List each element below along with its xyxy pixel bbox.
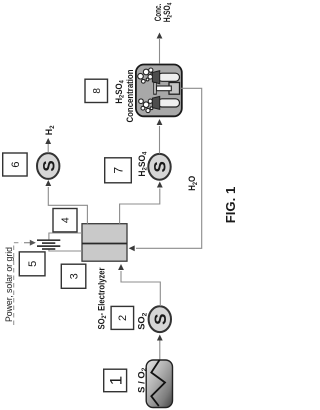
- box 5: [19, 252, 45, 276]
- compressor S1: [149, 306, 171, 332]
- H2SO4 concentration unit: [136, 65, 182, 117]
- svg-text:SO2: SO2: [137, 312, 149, 329]
- box 8: [85, 79, 108, 102]
- svg-text:1: 1: [106, 376, 125, 385]
- battery (DC source) plates: [37, 240, 60, 249]
- evaporator tube right: [152, 71, 179, 84]
- wire: battery to electrolyzer cathode: [49, 250, 82, 252]
- electrolyzer membrane divider: [82, 243, 127, 245]
- wire: concentrated acid out: [157, 33, 163, 64]
- svg-text:S: S: [151, 314, 170, 325]
- label Conc. H2SO4: [153, 3, 174, 23]
- wire: furnace to compressor S1: [157, 335, 163, 361]
- box 1: [104, 369, 127, 392]
- zigzag coil: [151, 360, 165, 406]
- svg-text:3: 3: [69, 273, 81, 279]
- svg-text:4: 4: [60, 217, 72, 223]
- svg-text:7: 7: [111, 167, 125, 174]
- svg-text:H2SO4: H2SO4: [162, 3, 174, 23]
- power feed arrow: [24, 240, 36, 246]
- svg-text:H2SO4: H2SO4: [137, 151, 149, 176]
- box 3: [61, 264, 86, 288]
- svg-text:Concentration: Concentration: [125, 70, 135, 123]
- svg-text:H2: H2: [44, 125, 56, 135]
- svg-text:SO2- Electrolyzer: SO2- Electrolyzer: [95, 267, 108, 329]
- svg-text:S: S: [151, 161, 170, 172]
- wire: S1 to electrolyzer SO2 feed: [118, 264, 160, 306]
- box 2: [111, 306, 134, 329]
- svg-text:6: 6: [10, 161, 22, 167]
- wire: H2 product out: [45, 138, 51, 153]
- SO2 electrolyzer: [82, 224, 127, 262]
- svg-text:H2O: H2O: [187, 176, 199, 191]
- svg-text:Power, solar or grid: Power, solar or grid: [4, 247, 14, 322]
- box 4: [53, 209, 77, 232]
- box 7: [105, 158, 132, 183]
- wire: electrolyzer H2SO4 out to pump S2: [120, 182, 163, 224]
- label H2SO4 Concentration: [114, 70, 135, 123]
- wire: battery to electrolyzer anode: [49, 232, 82, 234]
- svg-text:5: 5: [27, 261, 39, 267]
- box 6: [3, 153, 27, 176]
- wire: battery horizontal stubs: [48, 249, 50, 252]
- bubbles left cluster: [139, 99, 153, 113]
- svg-text:8: 8: [92, 88, 103, 94]
- svg-text:2: 2: [117, 315, 129, 321]
- svg-text:FIG. 1: FIG. 1: [223, 187, 238, 224]
- connector plunger: [154, 83, 180, 95]
- evaporator tube left: [152, 96, 179, 109]
- compressor S3: [37, 153, 59, 179]
- wire: H2O recycle to electrolyzer: [129, 88, 202, 251]
- svg-text:S: S: [39, 160, 58, 171]
- pump S2: [148, 154, 170, 180]
- dashed power feed line: [14, 243, 22, 325]
- furnace S/O2 burner: [146, 360, 172, 408]
- wire: S2 to concentrator: [157, 119, 163, 154]
- wire: electrolyzer H2 offgas to compressor S3: [45, 180, 87, 224]
- bubbles right cluster: [138, 68, 154, 83]
